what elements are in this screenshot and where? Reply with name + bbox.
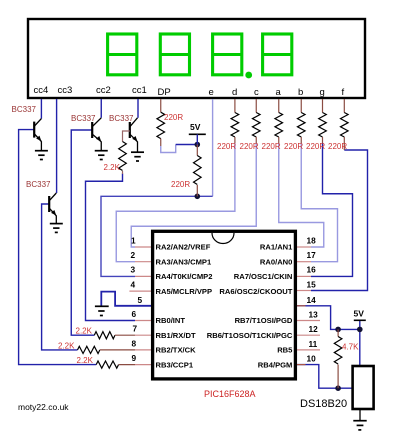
pin stub 6 bbox=[135, 320, 153, 322]
svg-text:14: 14 bbox=[307, 295, 317, 305]
wire DP to 5V junction bbox=[176, 144, 198, 146]
svg-text:RA7/OSC1/CKIN: RA7/OSC1/CKIN bbox=[234, 272, 293, 281]
resistor R10 2.2K vertical bbox=[119, 142, 127, 171]
wire Q2 emitter bbox=[100, 142, 102, 151]
wire 5V to DS18B20 VDD bbox=[359, 320, 361, 366]
svg-text:BC337: BC337 bbox=[71, 114, 96, 123]
junction node 5V rail bbox=[357, 327, 363, 333]
junction node DQ bbox=[335, 385, 341, 391]
ground DS18B20 bbox=[353, 421, 366, 430]
pin stub 14 bbox=[295, 305, 305, 307]
svg-text:18: 18 bbox=[307, 236, 317, 246]
svg-text:a: a bbox=[276, 87, 282, 98]
pin stub 13 bbox=[295, 320, 320, 322]
wire cc1 net bbox=[137, 99, 139, 118]
wire net a to pin 18 bbox=[279, 143, 324, 247]
pin stub 12 bbox=[295, 334, 320, 336]
wire Q4 emitter bbox=[55, 216, 57, 224]
resistor R11 2.2K pin 7 bbox=[94, 332, 115, 339]
ground pin 5 bbox=[95, 306, 109, 315]
junction node e pullup bbox=[195, 194, 201, 200]
svg-text:RA3/AN3/CMP1: RA3/AN3/CMP1 bbox=[156, 257, 212, 266]
svg-text:RB6/T1OSO/T1CKI/PGC: RB6/T1OSO/T1CKI/PGC bbox=[207, 331, 293, 340]
resistor R12 2.2K pin 8 bbox=[78, 346, 100, 353]
wire R10 bottom lead bbox=[122, 171, 124, 174]
pin stub 3 bbox=[135, 275, 153, 277]
svg-text:RA0/AN0: RA0/AN0 bbox=[260, 257, 293, 266]
wire net g to pin 16 bbox=[311, 143, 353, 276]
svg-text:cc4: cc4 bbox=[34, 85, 49, 96]
resistor R9 4.7K bbox=[337, 329, 339, 336]
wire net e to pin 3 bbox=[101, 196, 213, 276]
digit 4 bbox=[263, 34, 292, 75]
wire e column bbox=[212, 99, 214, 196]
wire Q3 emitter bbox=[137, 142, 139, 153]
chip notch bbox=[212, 233, 234, 244]
wire Q2 base to pin 7 bbox=[71, 130, 94, 335]
pin stub 7 bbox=[135, 334, 153, 336]
svg-text:13: 13 bbox=[309, 310, 319, 320]
svg-text:BC337: BC337 bbox=[12, 105, 37, 114]
transistor Q4 BC337 bbox=[49, 193, 56, 216]
wire Q1 emitter bbox=[40, 141, 42, 150]
pin stub 17 bbox=[295, 261, 311, 263]
pin stub 11 bbox=[295, 349, 320, 351]
wire Q1 base to pin 9 bbox=[19, 130, 97, 365]
svg-text:9: 9 bbox=[132, 353, 137, 363]
op-amp U1 PIC16F628A body bbox=[153, 231, 296, 379]
svg-text:220R: 220R bbox=[171, 180, 190, 189]
ground Q3 bbox=[131, 152, 144, 161]
svg-text:220R: 220R bbox=[328, 142, 347, 151]
svg-text:cc3: cc3 bbox=[58, 85, 73, 96]
svg-text:220R: 220R bbox=[262, 142, 281, 151]
svg-text:5V: 5V bbox=[190, 122, 201, 132]
svg-text:220R: 220R bbox=[164, 113, 183, 122]
svg-text:BC337: BC337 bbox=[109, 114, 134, 123]
pin stub 1 bbox=[135, 246, 153, 248]
svg-text:PIC16F628A: PIC16F628A bbox=[204, 389, 256, 399]
wire cc3 net bbox=[56, 99, 58, 193]
svg-text:d: d bbox=[232, 87, 237, 98]
svg-text:10: 10 bbox=[307, 354, 317, 364]
pin stub 15 bbox=[295, 290, 311, 292]
svg-text:2.2K: 2.2K bbox=[58, 342, 75, 351]
sensor U2 DS18B20 body bbox=[353, 366, 374, 409]
wire pin 10 to DS18B20 DQ bbox=[295, 365, 352, 389]
junction node DP/5V bbox=[195, 142, 201, 148]
svg-text:4.7K: 4.7K bbox=[342, 343, 359, 352]
wire cc2 net bbox=[100, 99, 102, 118]
wire Q3 base lead bbox=[123, 131, 130, 142]
transistor Q3 BC337 bbox=[130, 118, 138, 142]
svg-text:4: 4 bbox=[131, 279, 136, 289]
svg-text:c: c bbox=[254, 87, 259, 98]
resistor R3 220R segment d bbox=[234, 99, 236, 113]
pin stub 9 bbox=[135, 364, 153, 366]
ground Q2 bbox=[95, 151, 108, 160]
svg-text:8: 8 bbox=[132, 339, 137, 349]
svg-text:e: e bbox=[209, 87, 214, 98]
svg-text:5: 5 bbox=[138, 295, 143, 305]
svg-text:2.2K: 2.2K bbox=[76, 327, 93, 336]
svg-text:220R: 220R bbox=[306, 142, 325, 151]
pin stub 2 bbox=[135, 261, 153, 263]
svg-text:cc2: cc2 bbox=[96, 85, 111, 96]
pin stub 18 bbox=[295, 246, 311, 248]
resistor R8 220R segment f bbox=[343, 99, 345, 113]
svg-text:220R: 220R bbox=[284, 142, 303, 151]
svg-text:DS18B20: DS18B20 bbox=[300, 398, 347, 410]
pin stub 8 bbox=[135, 349, 153, 351]
svg-text:6: 6 bbox=[132, 309, 137, 319]
svg-text:220R: 220R bbox=[240, 142, 259, 151]
pin stub 4 bbox=[129, 290, 152, 292]
svg-text:RB1/RX/DT: RB1/RX/DT bbox=[156, 331, 196, 340]
svg-text:cc1: cc1 bbox=[132, 85, 147, 96]
digit 3 bbox=[213, 34, 242, 75]
ground Q4 bbox=[50, 224, 63, 233]
wire pin 14 to 5V rail bbox=[295, 306, 359, 330]
wire cc4 net bbox=[40, 99, 42, 119]
svg-text:11: 11 bbox=[309, 339, 318, 349]
pin stub 16 bbox=[295, 275, 311, 277]
ground Q1 bbox=[35, 151, 48, 160]
svg-text:RA2/AN2/VREF: RA2/AN2/VREF bbox=[156, 243, 211, 252]
wire DP resistor jog bbox=[161, 145, 176, 153]
wire DS18B20 gnd lead bbox=[359, 409, 361, 421]
svg-text:RB3/CCP1: RB3/CCP1 bbox=[156, 360, 194, 369]
pin stub 10 bbox=[295, 364, 305, 366]
resistor R7 220R segment g bbox=[322, 99, 324, 113]
svg-text:RB0/INT: RB0/INT bbox=[156, 316, 186, 325]
decimal point DP bbox=[245, 72, 252, 79]
svg-text:RA6/OSC2/CKOOUT: RA6/OSC2/CKOOUT bbox=[219, 287, 292, 296]
wire pin 5 to ground bbox=[101, 292, 152, 306]
svg-text:b: b bbox=[298, 87, 303, 98]
junction node 4.7K top bbox=[335, 327, 341, 333]
resistor R1 220R DP bbox=[160, 99, 162, 112]
wire net b to pin 17 bbox=[301, 143, 337, 262]
svg-text:moty22.co.uk: moty22.co.uk bbox=[18, 402, 69, 412]
svg-text:12: 12 bbox=[309, 324, 319, 334]
resistor R2 220R pullup bbox=[196, 145, 198, 156]
svg-text:RB2/TX/CK: RB2/TX/CK bbox=[156, 346, 197, 355]
resistor R4 220R segment c bbox=[255, 99, 257, 113]
svg-text:15: 15 bbox=[307, 279, 317, 289]
svg-text:5V: 5V bbox=[354, 309, 365, 319]
transistor Q2 BC337 bbox=[92, 118, 101, 142]
svg-text:RB5: RB5 bbox=[277, 346, 293, 355]
svg-text:RA5/MCLR/VPP: RA5/MCLR/VPP bbox=[156, 287, 213, 296]
wire net c to pin 1 bbox=[131, 143, 256, 247]
svg-text:17: 17 bbox=[307, 250, 317, 260]
svg-text:1: 1 bbox=[131, 236, 136, 246]
svg-text:RB7/T1OSI/PGD: RB7/T1OSI/PGD bbox=[235, 316, 293, 325]
svg-text:2.2K: 2.2K bbox=[77, 356, 94, 365]
wire Q4 base to pin 8 bbox=[42, 204, 78, 350]
svg-text:7: 7 bbox=[133, 324, 138, 334]
display DIS1 box bbox=[28, 19, 365, 98]
svg-text:DP: DP bbox=[158, 87, 171, 98]
wire net d to pin 2 bbox=[116, 143, 235, 262]
wire 2.2K R10 bottom to pin 6 bbox=[86, 174, 136, 321]
svg-text:g: g bbox=[320, 87, 325, 98]
resistor R13 2.2K pin 9 bbox=[96, 361, 118, 368]
svg-text:3: 3 bbox=[131, 265, 136, 275]
svg-text:2: 2 bbox=[131, 250, 136, 260]
svg-text:f: f bbox=[342, 87, 345, 98]
resistor R5 220R segment a bbox=[278, 99, 280, 113]
svg-text:RA1/AN1: RA1/AN1 bbox=[260, 243, 293, 252]
svg-text:2.2K: 2.2K bbox=[104, 163, 121, 172]
svg-text:RB4/PGM: RB4/PGM bbox=[258, 360, 293, 369]
svg-text:RA4/T0KI/CMP2: RA4/T0KI/CMP2 bbox=[156, 272, 213, 281]
digit 1 bbox=[108, 34, 137, 75]
transistor Q1 BC337 bbox=[34, 119, 41, 142]
wire net f to pin 15 bbox=[311, 150, 368, 291]
svg-text:BC337: BC337 bbox=[26, 180, 51, 189]
digit 2 bbox=[160, 34, 189, 75]
resistor R6 220R segment b bbox=[300, 99, 302, 113]
svg-text:220R: 220R bbox=[217, 142, 236, 151]
svg-text:16: 16 bbox=[307, 265, 317, 275]
